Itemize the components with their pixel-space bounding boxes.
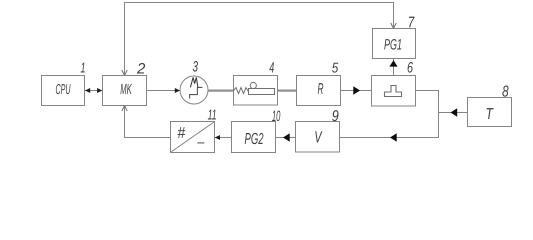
svg-text:8: 8 xyxy=(502,84,509,101)
svg-text:6: 6 xyxy=(407,60,413,77)
svg-text:10: 10 xyxy=(272,108,281,125)
svg-text:R: R xyxy=(318,81,324,98)
svg-text:1: 1 xyxy=(81,61,86,77)
svg-text:5: 5 xyxy=(332,61,339,77)
svg-text:4: 4 xyxy=(269,60,274,77)
svg-text:PG2: PG2 xyxy=(245,131,264,148)
svg-text:3: 3 xyxy=(193,59,199,76)
svg-text:CPU: CPU xyxy=(56,82,71,98)
svg-text:2: 2 xyxy=(136,60,146,77)
svg-text:9: 9 xyxy=(332,108,339,125)
svg-text:T: T xyxy=(485,106,494,123)
svg-text:11: 11 xyxy=(208,108,217,124)
svg-text:PG1: PG1 xyxy=(384,36,402,53)
svg-text:MK: MK xyxy=(120,82,132,98)
svg-text:#: # xyxy=(177,125,186,142)
svg-text:7: 7 xyxy=(408,15,415,32)
